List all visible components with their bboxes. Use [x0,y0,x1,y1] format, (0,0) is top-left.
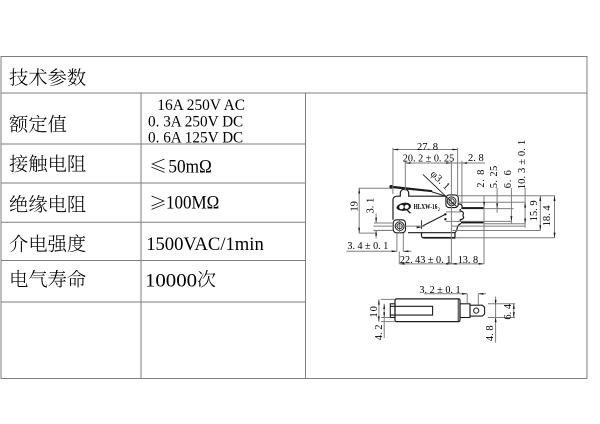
bottom hole crosshair horizontal [374,225,425,227]
svg-text:27. 8: 27. 8 [417,142,438,153]
row label 额定值 [9,115,27,133]
mounting hole boss bottom left [393,220,405,233]
bottom hole centerline vertical [399,221,401,234]
dim 22.43 +-0.1 and 13.8 [398,252,400,264]
svg-text:10: 10 [369,305,380,318]
row label 绝缘电阻 [10,195,28,212]
dim 6.4 [488,303,515,305]
table: right edge of parameter table [305,93,307,379]
bottom tab under body [422,233,456,238]
hole centerline right [458,201,525,203]
svg-text:0. 6A 125V DC: 0. 6A 125V DC [148,130,243,147]
leader phi3.1 [423,174,457,206]
terminal neck [460,304,470,318]
left step [390,304,395,318]
insulation resistance value [151,196,164,210]
svg-text:3. 4 ± 0. 1: 3. 4 ± 0. 1 [347,241,388,252]
svg-text:20. 2 ± 0. 25: 20. 2 ± 0. 25 [403,153,454,164]
bottom view body [395,299,460,322]
svg-text:6. 6: 6. 6 [503,169,514,188]
contact dots [444,213,446,215]
dim 10 [381,298,395,300]
witness 233.1 left of body [359,232,377,234]
terminal blade [470,305,485,316]
dim 2.8 top [451,162,462,164]
svg-text:2. 8: 2. 8 [476,169,487,188]
contact line b [446,220,512,222]
contact resistance value [151,159,164,173]
dim 4.8 [495,296,497,342]
switch body outline [393,189,464,233]
dim 6.6 [510,188,512,224]
table: row rules [1,143,306,145]
svg-text:5. 25: 5. 25 [489,165,500,188]
row label 接触电阻 [10,154,28,172]
bottom hole outer circle [395,222,404,231]
svg-text:50mΩ: 50mΩ [168,156,211,177]
body left rounded top corner [393,196,397,200]
dim 3.4 +-0.1 [396,233,398,252]
blade hole [474,308,479,313]
pivot hole boss top right [446,195,458,208]
dim 2.8 vertical [483,196,485,264]
terminal2 bottom extension [484,223,525,225]
bottom hole inner circle [397,224,402,229]
pivot hole outer circle [447,197,456,206]
dim 4.2 [383,304,385,338]
brand logo blob [396,203,411,214]
internal tick [421,220,423,229]
lever link to pivot [432,192,446,196]
svg-text:4. 2: 4. 2 [374,325,385,341]
dim 10.3 +-0.1 [524,188,526,228]
svg-text:100MΩ: 100MΩ [166,193,219,214]
svg-text:6. 4: 6. 4 [503,303,514,320]
svg-text:HLXW-16: HLXW-16 [414,202,438,211]
dim 27.8 [393,149,458,151]
table: outer frame [1,57,587,379]
row label 电气寿命 [12,270,28,287]
terminal 1 (upper right) [461,207,484,209]
witness 237.8 / tab bottom extension [455,237,555,239]
dim 20.2 +-0.25 [405,162,451,164]
lever top witness [359,187,390,189]
inner right double line [457,299,459,321]
pivot hole inner circle [449,199,454,204]
dim 5.25 [496,188,498,213]
svg-text:2. 8: 2. 8 [468,153,484,164]
svg-text:4. 8: 4. 8 [485,325,496,341]
svg-text:15. 9: 15. 9 [529,200,540,221]
inner slot [390,306,432,315]
witness 230.5 [374,230,394,232]
table: column divider [140,93,142,379]
svg-text:19: 19 [349,201,360,212]
svg-text:13. 8: 13. 8 [458,255,478,266]
svg-text:2: 2 [438,208,441,213]
svg-text:φ3. 1: φ3. 1 [428,169,452,193]
terminal 2 (lower right) [461,222,484,224]
dim 18.4 [554,196,556,238]
svg-text:10. 3 ± 0. 1: 10. 3 ± 0. 1 [517,140,528,190]
datum line top right [458,195,555,197]
row label 介电强度 [10,235,28,253]
svg-text:3. 2 ± 0. 1: 3. 2 ± 0. 1 [419,285,460,296]
table: header bottom rule (full width) [1,92,587,94]
dim 3.1 [375,214,377,223]
dim 19 [358,188,360,233]
svg-text:0. 3A 250V DC: 0. 3A 250V DC [148,114,243,131]
svg-text:18. 4: 18. 4 [542,205,553,227]
svg-text:22. 43 ± 0. 1: 22. 43 ± 0. 1 [400,255,451,266]
terminal1 extension line [484,208,513,210]
dim 15.9 [539,196,541,231]
svg-text:1500VAC/1min: 1500VAC/1min [146,234,264,255]
dim 3.2 +-0.1 [466,294,468,303]
internal mechanism diagonal [422,215,446,227]
lever arm [390,186,432,192]
svg-text:10000: 10000 [145,270,197,291]
contact line a [446,211,461,213]
svg-text:3. 1: 3. 1 [365,198,376,214]
witness lines top [392,148,394,194]
lever tip curl [389,185,393,189]
header text 技术参数 [10,68,28,86]
svg-text:16A 250V AC: 16A 250V AC [157,97,245,114]
